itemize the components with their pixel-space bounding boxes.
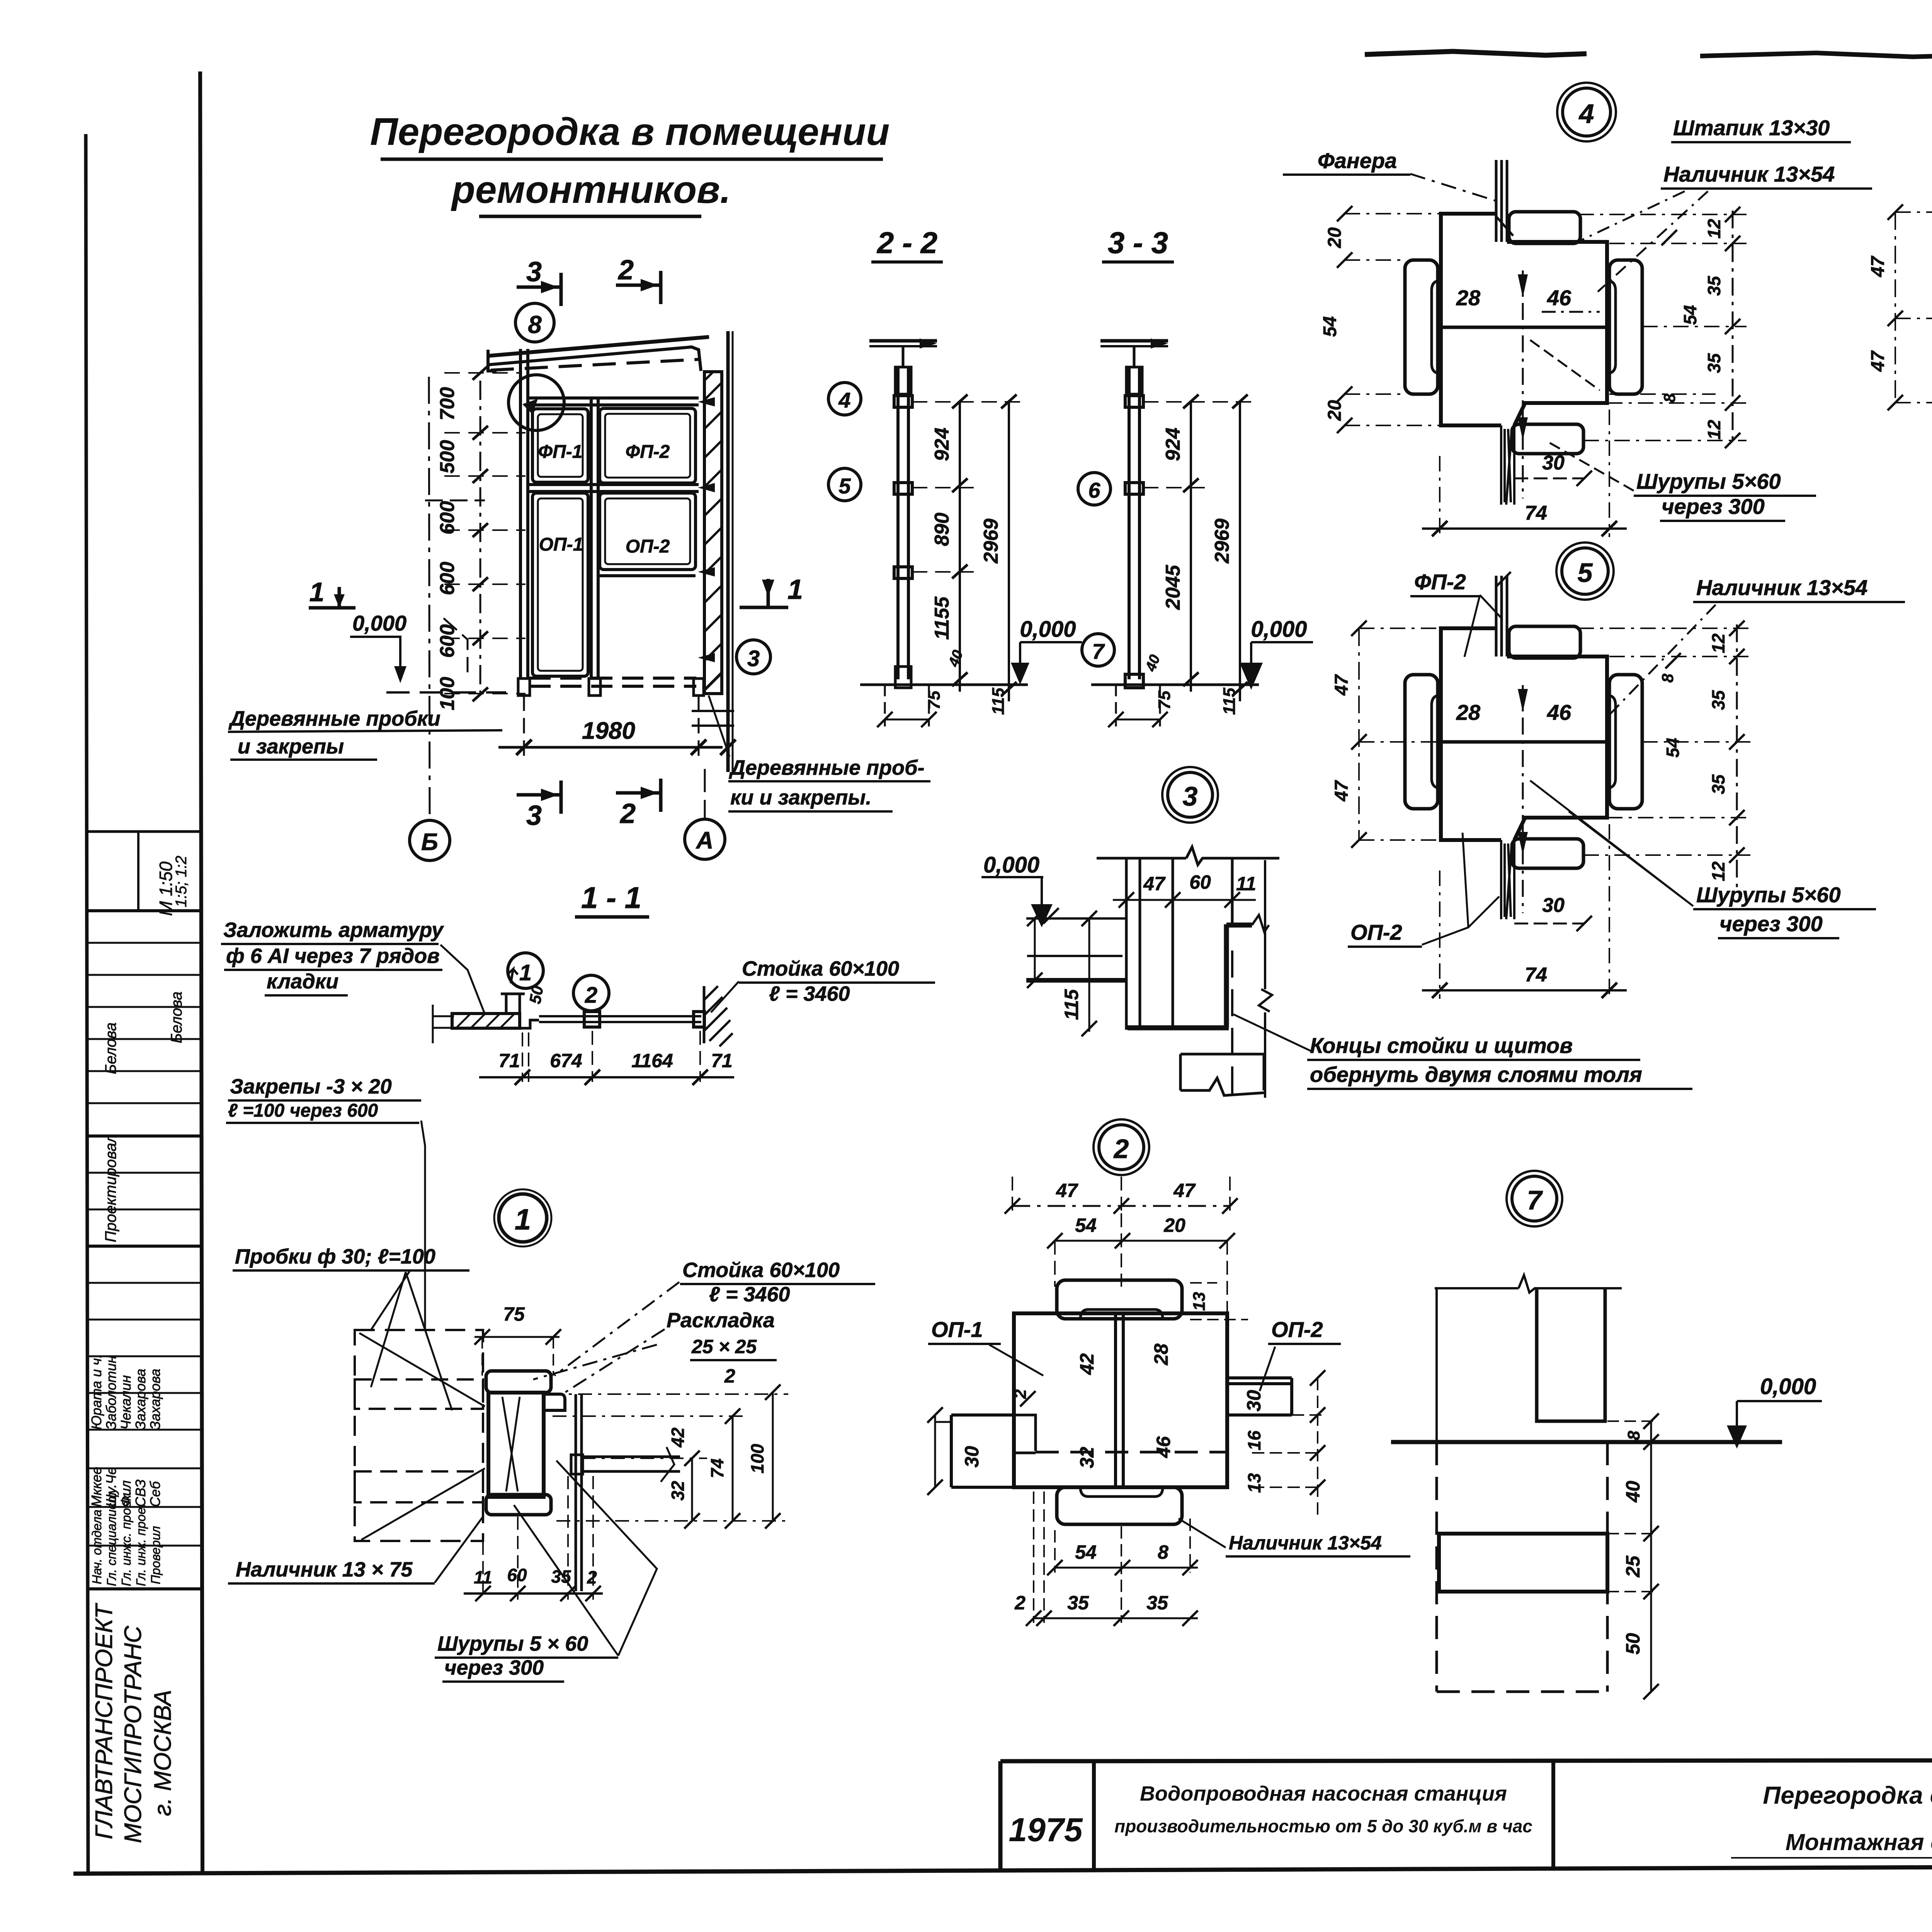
svg-text:2969: 2969 <box>1211 519 1233 564</box>
left strip: signature table rows <box>87 1282 201 1284</box>
det2 left panel cut <box>951 1415 1014 1487</box>
thin underline <box>1731 1857 1932 1859</box>
leader Пробки <box>371 1272 452 1410</box>
right extension lines <box>1578 214 1747 440</box>
det1 раскладка vertical strip <box>575 1394 577 1591</box>
svg-text:1: 1 <box>515 1203 531 1236</box>
2-2 below-ground dims <box>885 685 929 726</box>
svg-text:115: 115 <box>1220 687 1239 715</box>
det2 central mullion double <box>1114 1313 1117 1487</box>
callout circle 5 double <box>1562 548 1608 594</box>
svg-text:8: 8 <box>1624 1430 1643 1440</box>
roof double line upper <box>488 337 709 356</box>
svg-text:674: 674 <box>550 1050 582 1071</box>
left dims 47 47 det6 <box>1895 212 1932 403</box>
detail callout circle 8 <box>515 303 554 342</box>
svg-text:1 - 1: 1 - 1 <box>581 881 641 915</box>
svg-text:Деревянные пробки: Деревянные пробки <box>228 707 440 730</box>
det3 right wall line with break <box>1264 860 1266 1098</box>
section mark 2 top flag <box>616 284 661 287</box>
svg-text:2 - 2: 2 - 2 <box>876 226 937 260</box>
svg-text:74: 74 <box>707 1458 727 1478</box>
2-2 rail block 2 <box>894 483 912 494</box>
svg-text:Гл. инж. прое.: Гл. инж. прое. <box>134 1504 148 1586</box>
det3 bold angle steel <box>1128 924 1229 1028</box>
svg-text:Шурупы 5 × 60: Шурупы 5 × 60 <box>437 1632 588 1655</box>
svg-text:35: 35 <box>1708 774 1728 794</box>
svg-text:1164: 1164 <box>631 1050 673 1071</box>
ФП-2 leaders <box>1464 595 1502 657</box>
svg-text:Перегородка остекленная.: Перегородка остекленная. <box>1763 1781 1932 1809</box>
svg-text:700: 700 <box>436 387 459 421</box>
svg-text:Наличник 13×54: Наличник 13×54 <box>1696 575 1867 600</box>
svg-text:Стойка 60×100: Стойка 60×100 <box>742 957 899 980</box>
left strip: scale cell top line <box>87 830 201 833</box>
OP-2 bottom rail <box>600 574 696 577</box>
штапик top strip <box>1496 160 1507 242</box>
panel OP-2 outer <box>600 493 696 570</box>
title underline 2 <box>479 215 701 218</box>
svg-text:3 - 3: 3 - 3 <box>1108 226 1168 260</box>
svg-text:54: 54 <box>1075 1541 1097 1563</box>
svg-text:ℓ =100 через 600: ℓ =100 через 600 <box>228 1100 378 1121</box>
3-3 dim line inner <box>1190 401 1192 692</box>
svg-text:6: 6 <box>1088 478 1100 502</box>
штапик bottom strip with hatch <box>1501 425 1514 505</box>
det7 left vertical <box>1435 1288 1438 1442</box>
left dim ticks <box>1337 206 1352 433</box>
svg-text:А: А <box>696 827 714 854</box>
det1 plug upper dashed <box>355 1379 483 1409</box>
left strip: scale cell inner divider <box>137 832 139 911</box>
3-3 post double line <box>1128 367 1131 679</box>
svg-text:20: 20 <box>1325 400 1345 421</box>
bottom dim extension lines <box>523 696 525 757</box>
svg-text:50: 50 <box>526 984 547 1005</box>
axis circle Б <box>410 820 450 861</box>
leaders шурупы det1 <box>514 1461 657 1656</box>
stud foot left <box>518 679 530 696</box>
left leader bent line <box>425 500 485 672</box>
right dim ticks <box>1662 207 1740 448</box>
det7 block <box>1439 1534 1607 1592</box>
svg-text:Раскладка: Раскладка <box>667 1309 775 1332</box>
2-2 dim line outer 2969 <box>1008 401 1010 701</box>
det2 right panel cut <box>1227 1378 1292 1415</box>
3-3 rail block 2 <box>1125 483 1143 494</box>
svg-text:7: 7 <box>1092 639 1105 663</box>
svg-text:кладки: кладки <box>267 970 338 993</box>
wall bottom marks <box>692 710 734 712</box>
svg-text:СВЗ: СВЗ <box>133 1480 148 1507</box>
svg-text:600: 600 <box>436 562 459 595</box>
top casing band det5 <box>1509 626 1580 658</box>
svg-text:Юрата и ч.: Юрата и ч. <box>88 1354 104 1430</box>
svg-text:8: 8 <box>1658 673 1677 683</box>
det1 right dim lines vertical <box>692 1392 773 1521</box>
svg-text:75: 75 <box>1155 690 1174 709</box>
det3 top line with break <box>1097 847 1279 865</box>
svg-text:25: 25 <box>1622 1555 1644 1578</box>
svg-text:1: 1 <box>519 960 532 985</box>
svg-text:Водопроводная насосная стан: Водопроводная насосная станция <box>1140 1782 1507 1805</box>
det1 plug lower dashed <box>355 1471 483 1502</box>
panel FP-1 inner <box>538 414 583 477</box>
svg-text:Нач. отдела: Нач. отдела <box>90 1510 104 1584</box>
svg-text:32: 32 <box>1076 1447 1098 1468</box>
svg-text:32: 32 <box>668 1481 688 1501</box>
det1 bottom dim <box>464 1592 603 1595</box>
Наличник leaders <box>1578 191 1708 292</box>
top rail double line <box>528 396 699 400</box>
2-2 rail block 3 <box>894 567 912 578</box>
svg-text:74: 74 <box>1525 502 1547 524</box>
left strip: rows group2 <box>87 1172 201 1174</box>
svg-text:75: 75 <box>925 690 944 709</box>
svg-text:ФП-2: ФП-2 <box>626 442 670 462</box>
svg-text:5: 5 <box>838 474 851 498</box>
svg-text:ОП-1: ОП-1 <box>931 1317 983 1342</box>
2-2 ground line <box>860 684 1028 686</box>
svg-text:и закрепы: и закрепы <box>238 735 344 758</box>
left inner border line <box>200 71 202 1873</box>
det1 stud body <box>488 1393 544 1497</box>
wall outer line <box>726 331 730 772</box>
title block top line <box>1000 1760 1932 1761</box>
svg-text:1980: 1980 <box>582 718 635 744</box>
svg-text:25 × 25: 25 × 25 <box>691 1336 757 1357</box>
right dim chain det5 <box>1736 624 1738 889</box>
mullion double line <box>590 398 593 679</box>
svg-text:Заложить арматуру: Заложить арматуру <box>223 918 444 942</box>
svg-text:47: 47 <box>1868 255 1888 277</box>
svg-text:Мккее: Мккее <box>88 1467 104 1507</box>
svg-text:ОП-1: ОП-1 <box>539 534 583 555</box>
roof left end cap <box>488 350 497 371</box>
svg-text:75: 75 <box>503 1303 525 1325</box>
svg-text:71: 71 <box>498 1050 520 1071</box>
det3 115 dim <box>1088 918 1090 1032</box>
1-1 right wall hatch <box>704 986 733 1046</box>
svg-text:Чекалин: Чекалин <box>118 1375 134 1430</box>
3-3 top T-bar <box>1100 339 1168 343</box>
svg-text:13: 13 <box>1190 1292 1209 1311</box>
svg-text:115: 115 <box>989 687 1008 715</box>
left wing inner lip <box>1432 281 1438 373</box>
2-2 dim extension dashes <box>912 402 1020 572</box>
panel OP-1 outer <box>532 493 588 676</box>
roof dashed line under <box>491 359 699 370</box>
1-1 mullion block <box>584 1012 600 1027</box>
svg-text:2: 2 <box>1113 1134 1129 1164</box>
section mark 3 bottom flag <box>517 793 561 797</box>
callout circle 4 <box>828 383 861 415</box>
2-2 rail block 1 <box>894 396 912 407</box>
callout circle 7 double <box>1512 1176 1557 1221</box>
right casing wing <box>1609 260 1642 394</box>
svg-text:35: 35 <box>1708 690 1728 710</box>
svg-text:47: 47 <box>1868 350 1888 372</box>
right dim chain line <box>1732 211 1734 442</box>
bottom casing band <box>1512 424 1583 454</box>
detail circle at top-left corner big <box>509 375 564 430</box>
left section mark 1 <box>309 606 355 610</box>
det1 diag leaders inside <box>359 1271 485 1540</box>
panel mid joint line <box>1441 326 1607 329</box>
svg-text:2: 2 <box>1014 1592 1026 1614</box>
det2 dim 54 20 <box>1055 1240 1227 1242</box>
3-3 below-ground dims <box>1116 685 1160 726</box>
det2 bottom casing wing <box>1057 1487 1182 1524</box>
svg-text:Фанера: Фанера <box>1318 148 1397 173</box>
svg-text:30: 30 <box>1542 894 1565 917</box>
2-2 post top cap <box>895 367 911 394</box>
TITLE BLOCK <box>1000 1697 1932 1871</box>
svg-text:100: 100 <box>747 1444 767 1473</box>
SECTIONS 2-2 3-3 <box>828 226 1313 727</box>
leader to stud <box>711 981 739 1012</box>
left stud double line <box>519 349 522 679</box>
svg-text:47: 47 <box>1173 1180 1196 1201</box>
svg-text:8: 8 <box>528 311 542 338</box>
left extension lines <box>1345 214 1441 425</box>
svg-text:Фил: Фил <box>118 1480 134 1507</box>
1-1 panel double line <box>539 1015 701 1017</box>
callout circle 2 double <box>1099 1125 1144 1170</box>
svg-text:Шурупы 5×60: Шурупы 5×60 <box>1636 469 1781 493</box>
штапик bottom det5 <box>1501 840 1514 919</box>
svg-text:ф 6 АI через 7 рядов: ф 6 АI через 7 рядов <box>226 944 440 968</box>
svg-text:1155: 1155 <box>931 596 953 640</box>
center axis dash-dot <box>1522 270 1524 498</box>
bottom dashed rail 1 <box>529 677 696 680</box>
svg-text:28: 28 <box>1456 286 1481 310</box>
det3 right thin vertical pair <box>1231 858 1234 923</box>
svg-text:47: 47 <box>1332 780 1352 802</box>
callout circle 6 <box>1078 473 1111 505</box>
svg-text:Щу.Че: Щу.Че <box>103 1467 119 1507</box>
svg-text:0,000: 0,000 <box>1020 617 1076 642</box>
2-2 top T-bar <box>869 339 937 343</box>
det3 ground lines left <box>1026 918 1125 956</box>
det7 ground line <box>1391 1440 1782 1444</box>
axis line Б dash-dot <box>429 377 430 820</box>
ELEVATION <box>228 255 930 861</box>
bottom dim 74 <box>1440 410 1609 537</box>
svg-text:8: 8 <box>1660 393 1679 403</box>
left casing wing det5 <box>1405 675 1438 809</box>
det2 dashed glass line <box>1036 1451 1227 1454</box>
svg-text:5: 5 <box>1578 558 1593 588</box>
svg-text:Наличник 13 × 75: Наличник 13 × 75 <box>236 1558 413 1581</box>
inner leader 46 arrow <box>1542 311 1600 313</box>
svg-text:2: 2 <box>585 983 597 1008</box>
left dim chain line <box>480 381 481 696</box>
left outer border line <box>86 134 88 1873</box>
svg-text:54: 54 <box>1663 738 1683 757</box>
svg-text:500: 500 <box>436 440 459 474</box>
svg-text:Белова: Белова <box>168 992 185 1043</box>
svg-text:47: 47 <box>1056 1180 1078 1201</box>
svg-text:3: 3 <box>526 257 542 287</box>
svg-text:11: 11 <box>1236 873 1256 895</box>
svg-text:46: 46 <box>1547 700 1571 724</box>
svg-text:Наличник 13×54: Наличник 13×54 <box>1229 1532 1382 1554</box>
svg-text:13: 13 <box>1244 1473 1264 1493</box>
left strip: scale cell bottom line <box>87 909 201 912</box>
mullion foot <box>589 679 600 696</box>
DETAILS 4 5 6 8 <box>1283 78 1932 999</box>
det2 bottom dim 2 35 35 <box>1034 1617 1198 1619</box>
svg-text:Наличник 13×54: Наличник 13×54 <box>1663 162 1835 186</box>
svg-text:ОП-2: ОП-2 <box>1350 920 1402 944</box>
det7 channel <box>1537 1288 1605 1421</box>
svg-text:0,000: 0,000 <box>1251 617 1307 642</box>
Фанера leader <box>1410 174 1496 201</box>
svg-text:Проверил: Проверил <box>148 1526 163 1584</box>
svg-text:20: 20 <box>1325 227 1345 248</box>
svg-text:890: 890 <box>931 513 953 546</box>
svg-text:ОП-2: ОП-2 <box>1271 1317 1323 1342</box>
svg-text:2: 2 <box>724 1365 735 1387</box>
штапик top strip det5 <box>1496 576 1507 656</box>
svg-text:Закрепы -3 × 20: Закрепы -3 × 20 <box>230 1075 392 1098</box>
TITLE <box>370 110 890 216</box>
bottom dim 74 det5 <box>1440 824 1609 999</box>
det2 central body <box>1014 1313 1227 1487</box>
svg-text:производительностью от 5 до 3: производительностью от 5 до 30 куб.м в ч… <box>1114 1816 1532 1836</box>
svg-text:2045: 2045 <box>1162 565 1184 610</box>
center axis det5 <box>1522 685 1524 913</box>
svg-text:2: 2 <box>617 255 634 286</box>
panel FP-2 inner <box>605 414 690 478</box>
det2 left panel step lines <box>1014 1415 1036 1453</box>
svg-text:Заболотин: Заболотин <box>103 1355 119 1430</box>
svg-text:4: 4 <box>1578 99 1594 129</box>
svg-text:28: 28 <box>1456 700 1481 724</box>
callout circle 2 plan <box>573 975 609 1011</box>
svg-text:МОСГИПРОТРАНС: МОСГИПРОТРАНС <box>120 1625 146 1843</box>
svg-text:35: 35 <box>1146 1592 1168 1614</box>
svg-text:30: 30 <box>961 1446 983 1468</box>
svg-text:54: 54 <box>1075 1214 1097 1236</box>
svg-text:7: 7 <box>1527 1185 1543 1215</box>
svg-text:12: 12 <box>1708 633 1728 653</box>
det3 leader to note <box>1233 1014 1313 1052</box>
det3 left dim <box>1034 918 1036 980</box>
1-1 dim ticks <box>515 1070 708 1085</box>
svg-text:4: 4 <box>838 388 850 412</box>
det2 bottom dim 54 8 <box>1055 1567 1198 1569</box>
1-1 dim extensions <box>522 1031 700 1082</box>
det1 small block right <box>544 1394 565 1410</box>
panel body right part det5 <box>1507 656 1607 840</box>
svg-text:12: 12 <box>1708 861 1728 881</box>
3-3 T stem <box>1133 346 1136 367</box>
svg-text:16: 16 <box>1244 1430 1264 1451</box>
svg-text:60: 60 <box>1189 871 1211 893</box>
2-2 T stem <box>902 346 905 367</box>
svg-text:Деревянные проб-: Деревянные проб- <box>729 756 925 779</box>
axis circle А <box>685 819 725 859</box>
svg-text:115: 115 <box>1061 989 1082 1020</box>
1-1 corner stud <box>506 994 539 1028</box>
det2 top casing wing <box>1057 1280 1182 1319</box>
left ground dash line <box>386 691 506 694</box>
svg-text:42: 42 <box>668 1427 688 1448</box>
note underline <box>228 730 502 732</box>
callout circle 1 big <box>499 1194 547 1242</box>
svg-text:50: 50 <box>1622 1633 1644 1655</box>
left dim extension dashes <box>444 373 526 694</box>
svg-text:46: 46 <box>1153 1436 1174 1458</box>
corner arrow inside circle <box>522 399 538 414</box>
3-3 bottom foot <box>1125 674 1143 688</box>
svg-text:1975: 1975 <box>1009 1811 1083 1849</box>
svg-text:Пробки ф 30; ℓ=100: Пробки ф 30; ℓ=100 <box>235 1245 435 1268</box>
callout circle 4 double <box>1563 88 1611 136</box>
svg-text:600: 600 <box>436 501 459 535</box>
det1 dashed wall region <box>355 1330 483 1541</box>
2-2 bottom foot <box>895 667 911 688</box>
3-3 ground line <box>1091 684 1259 686</box>
svg-text:35: 35 <box>1704 276 1724 296</box>
det3 dim row 47 60 11 <box>1119 892 1240 908</box>
panel FP-1 outer <box>532 409 588 482</box>
det7 dashed bottom <box>1437 1690 1607 1693</box>
det1 casing bottom <box>486 1495 551 1515</box>
svg-text:8: 8 <box>1158 1541 1168 1563</box>
svg-text:Монтажная схема. Узлы.: Монтажная схема. Узлы. <box>1786 1829 1932 1855</box>
right wing inner lip <box>1609 281 1616 373</box>
2-2 dim line inner <box>959 401 961 692</box>
section mark 3 top flag <box>517 286 561 289</box>
leader from note to wall <box>440 945 485 1014</box>
svg-text:12: 12 <box>1704 219 1724 239</box>
1-1 right end block <box>694 1012 704 1027</box>
mid rail double line <box>528 483 699 486</box>
bottom dashed rail 2 <box>529 685 696 688</box>
1-1 left extension lines <box>433 1005 454 1043</box>
svg-text:обернуть двумя слоями толя: обернуть двумя слоями толя <box>1310 1062 1642 1087</box>
svg-text:1: 1 <box>310 577 325 607</box>
det3 verticals <box>1126 858 1173 1030</box>
det3 foundation <box>1180 1054 1264 1095</box>
bottom casing band det5 <box>1512 839 1583 868</box>
left dim ticks <box>473 366 488 701</box>
top torn edge dash 2 <box>1700 53 1932 57</box>
svg-text:Перегородка в помещении: Перегородка в помещении <box>370 110 890 153</box>
svg-text:28: 28 <box>1150 1344 1172 1366</box>
det1 stud cross lines <box>502 1397 520 1492</box>
left casing wing <box>1405 260 1438 394</box>
right wall hatched strip <box>704 372 722 694</box>
svg-text:ФП-2: ФП-2 <box>1414 570 1466 594</box>
svg-text:ФП-1: ФП-1 <box>538 442 583 462</box>
svg-text:1:5; 1:2: 1:5; 1:2 <box>173 856 190 907</box>
svg-text:30: 30 <box>1243 1390 1265 1412</box>
panel FP-2 outer <box>600 408 696 483</box>
top casing band <box>1509 212 1580 243</box>
svg-text:71: 71 <box>711 1050 733 1071</box>
svg-text:ГЛАВТРАНСПРОЕКТ: ГЛАВТРАНСПРОЕКТ <box>91 1603 117 1839</box>
callout circle 5 <box>828 468 861 501</box>
svg-text:1: 1 <box>787 574 803 605</box>
det2 top dim 47 47 <box>1012 1177 1230 1213</box>
svg-text:20: 20 <box>1163 1214 1185 1236</box>
wall axis dim ticks right <box>720 740 736 755</box>
det1 panel end block <box>571 1455 583 1474</box>
